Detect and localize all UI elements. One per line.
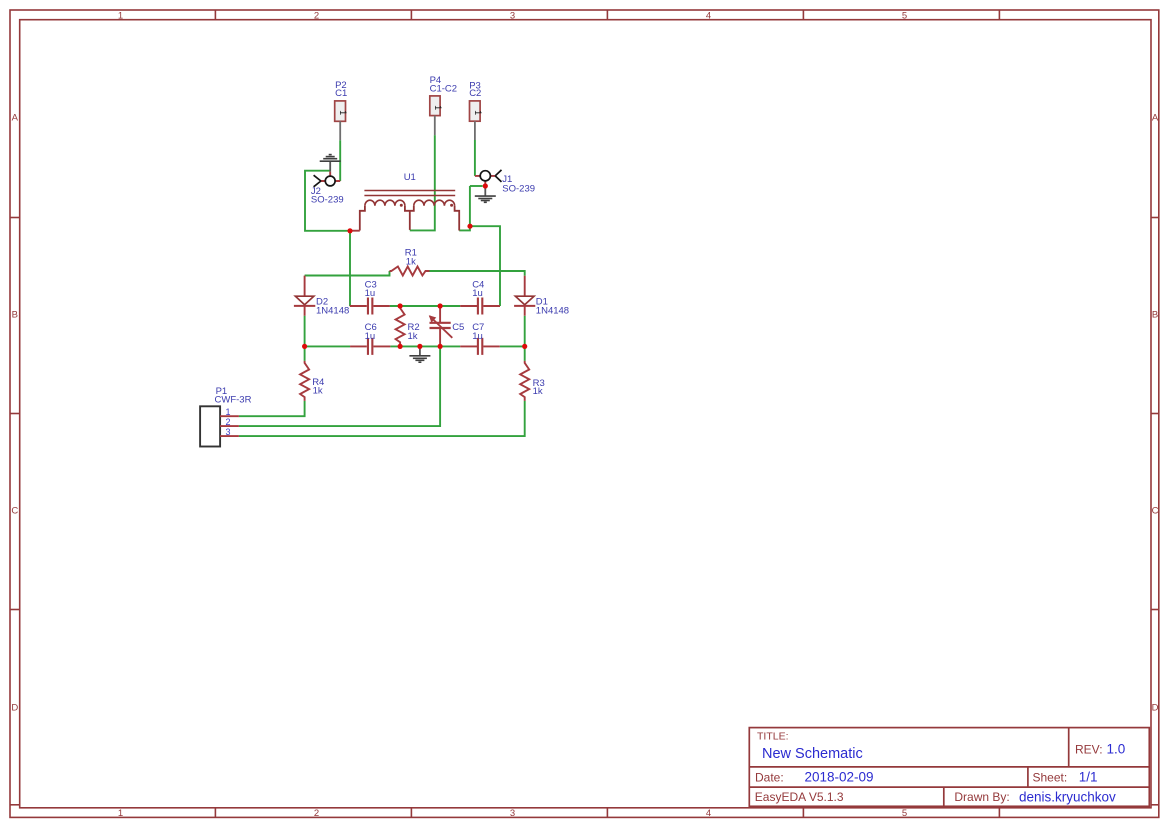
svg-text:1k: 1k (313, 385, 323, 396)
svg-text:B: B (1152, 309, 1158, 320)
svg-text:1u: 1u (365, 331, 376, 342)
svg-text:B: B (12, 309, 18, 320)
wire P4 to transformer center tap (410, 135, 435, 230)
junction at J1 ground (483, 183, 488, 188)
connector P1 CWF-3R (200, 406, 239, 446)
svg-text:REV:: REV: (1075, 742, 1103, 756)
svg-text:Sheet:: Sheet: (1033, 770, 1068, 784)
svg-text:C5: C5 (452, 322, 464, 333)
resistor R3 (520, 361, 529, 401)
svg-text:1k: 1k (533, 386, 543, 397)
svg-text:denis.kryuchkov: denis.kryuchkov (1019, 789, 1116, 804)
svg-text:1: 1 (433, 105, 443, 110)
capacitor C6 (350, 338, 390, 355)
variable capacitor C5 (429, 306, 453, 346)
svg-text:1.0: 1.0 (1107, 742, 1126, 757)
ground above J2 (320, 155, 341, 172)
svg-text:Drawn By:: Drawn By: (954, 790, 1009, 804)
wire P3 to J1 (474, 140, 476, 176)
wire node B to C4 top (470, 226, 500, 306)
resistor R2 (396, 306, 405, 346)
resistor R4 (300, 361, 309, 401)
capacitor C3 (350, 298, 390, 315)
connector P2 (335, 101, 348, 140)
center ground (409, 347, 430, 363)
wire D2 top to R1 left (305, 271, 390, 276)
svg-text:C: C (11, 505, 18, 516)
title block values (762, 742, 1125, 805)
wire node C to R4 (304, 346, 306, 361)
svg-text:2: 2 (314, 10, 319, 21)
svg-text:4: 4 (706, 808, 711, 819)
svg-text:1: 1 (118, 10, 123, 21)
wire D1 bottom drop (524, 316, 526, 347)
frame column numbers top (118, 10, 907, 21)
svg-text:A: A (12, 112, 19, 123)
wire P1 pin2 to C5 bottom (239, 346, 440, 426)
svg-text:New Schematic: New Schematic (762, 746, 863, 762)
junction node C (302, 344, 307, 349)
junction R2 bottom (398, 344, 403, 349)
svg-text:1: 1 (226, 407, 231, 417)
diode D2 1N4148 (294, 276, 315, 316)
svg-text:A: A (1152, 112, 1159, 123)
connector J1 SO-239 (475, 170, 502, 186)
junction C5 top (438, 303, 443, 308)
svg-text:Date:: Date: (755, 770, 784, 784)
svg-text:EasyEDA V5.1.3: EasyEDA V5.1.3 (755, 790, 844, 804)
wire lower row segment middle (390, 345, 460, 347)
title block labels (755, 730, 1103, 804)
capacitor C7 (460, 338, 500, 355)
wire D2 bottom drop (304, 316, 306, 347)
ground below J1 (475, 186, 496, 202)
svg-text:4: 4 (706, 10, 711, 21)
wire node A down to C3 (349, 231, 351, 306)
wire J2 to ground-node and left drop to node A (305, 171, 348, 231)
svg-text:1: 1 (338, 110, 348, 115)
svg-text:2: 2 (314, 808, 319, 819)
svg-text:1N4148: 1N4148 (316, 306, 349, 317)
svg-text:1u: 1u (365, 288, 376, 299)
junction node D (522, 344, 527, 349)
svg-text:1/1: 1/1 (1079, 769, 1098, 784)
junction node A (347, 228, 352, 233)
wire lower row segment right (500, 345, 525, 347)
svg-text:3: 3 (226, 427, 231, 437)
svg-text:U1: U1 (404, 172, 416, 183)
wire upper row C3 to C4 (390, 305, 461, 307)
wire P1 pin3 to R3 (239, 401, 525, 436)
svg-text:C: C (1152, 505, 1159, 516)
resistor R1 (390, 267, 430, 276)
svg-text:1k: 1k (406, 256, 416, 267)
svg-text:C1-C2: C1-C2 (430, 84, 457, 95)
svg-text:3: 3 (510, 808, 515, 819)
wire J1 pin2 to ground junction (470, 185, 483, 187)
svg-text:1: 1 (473, 110, 483, 115)
transformer U1 (360, 191, 459, 231)
frame row letters right (1152, 112, 1159, 713)
connector J2 SO-239 (314, 172, 341, 187)
svg-text:TITLE:: TITLE: (757, 730, 789, 742)
junction node B (467, 224, 472, 229)
svg-text:1u: 1u (472, 288, 483, 299)
wire P2 to J2 (339, 140, 341, 181)
connector P4 (430, 96, 443, 135)
frame column numbers bottom (118, 808, 907, 819)
svg-text:2018-02-09: 2018-02-09 (805, 769, 874, 784)
svg-text:SO-239: SO-239 (311, 194, 344, 205)
junction R2 top (398, 303, 403, 308)
svg-text:1N4148: 1N4148 (536, 306, 569, 317)
frame row letters left (11, 112, 18, 713)
title block (749, 728, 1149, 807)
svg-text:C1: C1 (335, 88, 347, 99)
labels (215, 75, 570, 405)
svg-text:5: 5 (902, 10, 907, 21)
junction C5 bottom (438, 344, 443, 349)
wire R4 to P1 pin1 (239, 401, 305, 416)
svg-text:5: 5 (902, 808, 907, 819)
junction center ground (417, 344, 422, 349)
wire R1 right to D1 top (430, 271, 525, 276)
connector P3 (470, 101, 483, 140)
svg-text:3: 3 (510, 10, 515, 21)
svg-text:2: 2 (226, 417, 231, 427)
svg-text:CWF-3R: CWF-3R (215, 394, 252, 405)
svg-text:D: D (11, 702, 18, 713)
svg-text:1u: 1u (472, 331, 483, 342)
diode D1 1N4148 (514, 276, 535, 316)
svg-text:1k: 1k (408, 331, 418, 342)
capacitor C4 (460, 298, 500, 315)
svg-text:C2: C2 (469, 88, 481, 99)
svg-text:SO-239: SO-239 (502, 183, 535, 194)
wire U1 left lead to node A (349, 230, 360, 232)
svg-text:D: D (1152, 702, 1159, 713)
svg-text:1: 1 (118, 808, 123, 819)
wire R3 top to node D (524, 346, 526, 361)
wire J1 branch down to transformer right end (459, 186, 470, 230)
wire lower row segment left (305, 345, 351, 347)
